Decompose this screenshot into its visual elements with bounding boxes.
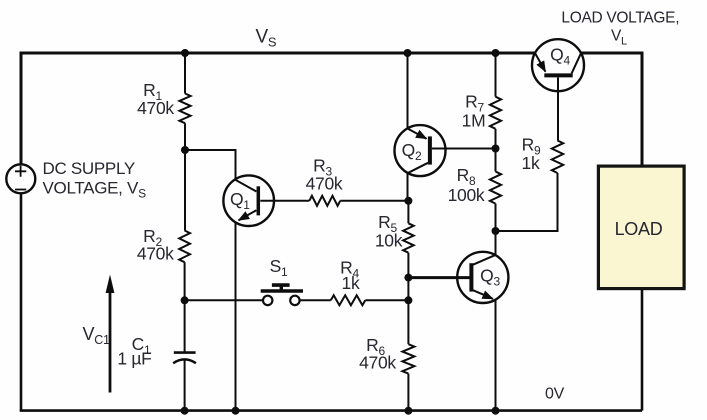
transistor Q1 base bar — [257, 186, 261, 215]
wire: R3 to node B — [340, 200, 408, 202]
transistor Q4 collector line — [572, 53, 581, 73]
wire: R5 to Q3 base node — [407, 253, 409, 278]
switch S1 left contact — [263, 296, 272, 305]
wire: Q2 collector to node B — [407, 173, 409, 201]
DC supply plus sign — [15, 166, 26, 177]
resistor R1 470k — [179, 94, 190, 124]
svg-text:100k: 100k — [448, 185, 485, 205]
transistor Q3 emitter line with arrow — [473, 290, 493, 299]
resistor R3 470k — [309, 196, 340, 206]
wire: VS top rail right of Q4 down to load — [581, 53, 642, 165]
wire: S1 right contact to R4 — [300, 299, 331, 301]
transistor Q3 (npn) body circle — [457, 252, 508, 303]
transistor Q2 emitter line with arrow into bar — [408, 129, 427, 139]
VC1 measurement arrow — [109, 286, 112, 393]
wire: R1 to node A — [184, 123, 186, 150]
svg-text:LOAD VOLTAGE,: LOAD VOLTAGE, — [561, 9, 679, 26]
transistor Q1 base lead to R3 — [260, 200, 309, 202]
transistor Q1 collector line — [236, 180, 257, 192]
transistor Q2 collector line — [408, 163, 429, 173]
svg-text:470k: 470k — [137, 244, 174, 264]
wire: R4 to middle column node — [365, 299, 408, 301]
DC supply source circle — [6, 164, 35, 193]
wire: top rail to R7 — [495, 53, 497, 97]
transistor Q1 emitter line with arrow — [239, 210, 257, 220]
wire: Q1 emitter down to 0V rail — [235, 222, 237, 411]
wire: VS top rail left section — [21, 53, 535, 164]
wire: S1 node down to C1 top — [184, 300, 186, 352]
junction dots — [181, 49, 189, 57]
transistor Q2 base lead to R7/R8 node — [432, 148, 496, 150]
LOAD block — [598, 166, 684, 289]
resistor R2 470k — [179, 231, 190, 263]
resistor R9 1k — [552, 141, 563, 174]
transistor Q4 (pnp) body circle — [532, 39, 584, 91]
wire: R4 node down to R6 — [407, 300, 409, 344]
wire: R6 to 0V rail — [407, 374, 409, 411]
wire: Q3 emitter to 0V rail — [495, 300, 497, 411]
wire: R8 to node C — [495, 204, 497, 231]
wire: R9 bottom to node C — [496, 173, 558, 231]
resistor R6 470k — [402, 344, 414, 373]
wire: Q4 base down to R9 — [557, 77, 559, 140]
wire: R7 to Q2 base node — [495, 129, 497, 172]
wire: Q3 base node to R4 node — [407, 278, 409, 301]
transistor Q1 (npn) body circle — [223, 175, 274, 226]
svg-text:VOLTAGE, VS: VOLTAGE, VS — [43, 179, 147, 201]
wire: S1 row from C1 node to left contact — [185, 299, 262, 301]
switch S1 actuator cap — [272, 283, 290, 287]
wire: C1 to 0V rail — [184, 359, 186, 411]
switch S1 actuator stem — [280, 285, 283, 290]
svg-text:1k: 1k — [342, 273, 360, 293]
transistor Q2 base bar — [428, 136, 432, 164]
capacitor C1 curved bottom plate — [173, 359, 196, 363]
wire: top rail to R1 — [184, 53, 186, 94]
transistor Q4 base bar (horizontal) — [544, 73, 572, 77]
svg-text:470k: 470k — [137, 98, 174, 118]
svg-text:10k: 10k — [375, 230, 403, 250]
wire: battery bottom to 0V rail — [20, 194, 23, 411]
wire: node A to Q1 collector — [185, 150, 236, 180]
svg-text:LOAD: LOAD — [615, 219, 663, 239]
transistor Q4 emitter line with arrow into bar — [535, 53, 545, 71]
transistor Q3 base bar — [469, 263, 473, 291]
wire: node A to R2 — [184, 150, 186, 231]
resistor R5 10k — [403, 223, 414, 252]
wire: Q3 collector to node C — [495, 231, 497, 255]
svg-text:1k: 1k — [522, 153, 540, 173]
transistor Q2 (pnp) body circle — [395, 125, 446, 176]
switch S1 right contact — [290, 296, 299, 305]
resistor R4 1k — [331, 295, 366, 305]
wire: top rail to Q2 emitter — [407, 53, 409, 129]
resistor R7 1M — [490, 97, 501, 129]
wire: node B to R5 — [407, 201, 409, 224]
switch S1 bridge bar — [261, 289, 303, 293]
transistor Q3 collector line — [473, 255, 496, 265]
svg-text:DC SUPPLY: DC SUPPLY — [43, 159, 135, 178]
resistor R8 100k — [490, 172, 501, 204]
svg-text:1M: 1M — [462, 110, 486, 130]
wire: 0V bottom rail — [20, 409, 642, 412]
wire: Q3 base lead (thick) — [408, 276, 469, 279]
svg-text:1 µF: 1 µF — [117, 348, 151, 368]
capacitor C1 top plate — [174, 351, 196, 354]
svg-text:0V: 0V — [545, 386, 565, 403]
svg-text:470k: 470k — [306, 174, 343, 194]
svg-text:470k: 470k — [359, 353, 396, 373]
DC supply minus sign — [15, 189, 26, 191]
wire: R2 to S1 row node — [184, 262, 186, 300]
wire: load bottom lead — [641, 290, 644, 411]
